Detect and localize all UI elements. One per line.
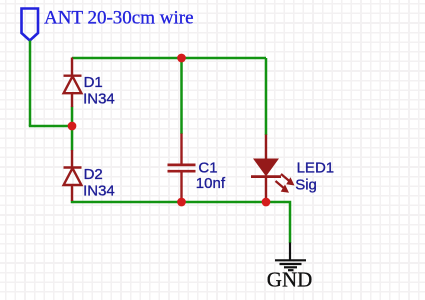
svg-text:10nf: 10nf [196, 175, 226, 192]
LED1 arrow 2 [276, 181, 290, 193]
LED1 arrow 1 [281, 174, 295, 186]
junction node antenna/D1/D2 [68, 122, 77, 131]
wire top rail [72, 57, 266, 60]
LED LED1 [251, 135, 281, 203]
svg-text:Sig: Sig [295, 176, 317, 193]
wire C1 top segment [180, 58, 183, 134]
junction node bottom rail / LED1 [262, 198, 271, 207]
ground symbol [275, 243, 306, 271]
svg-text:D1: D1 [84, 74, 103, 91]
svg-text:IN34: IN34 [83, 183, 115, 200]
wire D2 top segment [71, 125, 74, 151]
svg-text:LED1: LED1 [297, 159, 335, 176]
svg-text:D2: D2 [84, 166, 103, 183]
wire LED1 top segment [265, 58, 268, 135]
wire antenna horizontal to node [29, 125, 72, 128]
svg-text:ANT 20-30cm wire: ANT 20-30cm wire [44, 8, 194, 29]
svg-text:IN34: IN34 [83, 91, 115, 108]
diode D1 [64, 58, 82, 108]
junction node top rail / C1 [177, 54, 186, 63]
wire bottom rail to ground [72, 200, 290, 243]
diode D2 [64, 150, 82, 201]
svg-text:GND: GND [267, 267, 313, 291]
capacitor C1 [168, 134, 196, 203]
wire D1 bottom segment [71, 107, 74, 128]
wire antenna vertical [29, 41, 32, 127]
antenna ANT symbol [22, 9, 39, 41]
junction node bottom rail / C1 [177, 198, 186, 207]
